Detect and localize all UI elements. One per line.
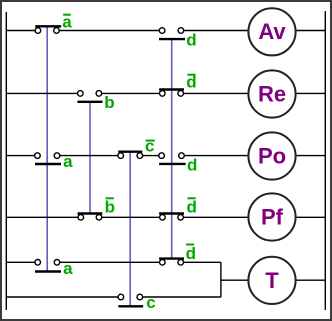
svg-text:a: a <box>63 152 73 171</box>
contact NO c rung5 : bar <box>118 305 143 307</box>
svg-text:Av: Av <box>258 19 286 44</box>
svg-text:a: a <box>62 12 72 31</box>
coil Po circle <box>248 132 295 179</box>
wire rung5 seg right <box>294 279 325 281</box>
contact NO a rung3 : bar <box>35 163 61 165</box>
linkage line d (blue) <box>171 39 173 258</box>
wire rung4 seg2 <box>99 216 162 218</box>
contact NC d-bar rung4 : bar <box>159 212 184 214</box>
coil Re circle <box>248 70 295 117</box>
wire rung5 join vertical <box>220 262 222 297</box>
linkage line a (blue) <box>46 27 48 271</box>
contact NC d-bar rung2 : bar <box>159 88 184 90</box>
right supply rail <box>324 11 326 310</box>
wire rung5 output <box>221 279 250 281</box>
wire rung2 seg4 <box>294 92 325 94</box>
wire rung2 seg3 <box>181 92 250 94</box>
wire rung1 seg1 <box>6 30 38 32</box>
svg-text:d: d <box>187 197 197 216</box>
wire rung1 seg2 <box>57 30 163 32</box>
wire rung3 seg4 <box>182 155 251 157</box>
wire rung3 seg1 <box>6 155 37 157</box>
contact NC b-bar rung4 : bar <box>78 212 103 214</box>
contact NO a rung3 : terminal 1 <box>35 153 41 159</box>
contact NC c-bar rung3 : terminal 2 <box>137 153 143 159</box>
contact NO c rung5 : terminal 1 <box>118 294 124 300</box>
wire rung2 seg2 <box>99 92 162 94</box>
wire rung4 seg3 <box>181 216 250 218</box>
coil Pf circle <box>248 193 295 240</box>
svg-text:Po: Po <box>258 143 286 168</box>
svg-text:b: b <box>104 93 114 112</box>
contact NO d rung3 : bar <box>159 163 186 165</box>
label d-bar rung5 <box>186 244 196 263</box>
wire rung5 bottom seg1 <box>6 296 121 298</box>
svg-text:c: c <box>146 293 155 312</box>
wire rung5 top seg2 <box>57 261 162 263</box>
wire rung2 seg1 <box>6 92 80 94</box>
linkage line b (blue) <box>89 102 91 214</box>
label d-bar rung4 <box>187 197 197 216</box>
svg-text:b: b <box>105 197 115 216</box>
wire rung5 top seg3 <box>181 261 221 263</box>
contact NO d rung1 : terminal 2 <box>178 28 184 34</box>
contact NO b rung2 : bar <box>77 101 102 103</box>
svg-text:T: T <box>265 268 279 293</box>
contact NC a-bar rung1 : terminal 1 <box>35 28 41 34</box>
svg-text:c: c <box>145 137 154 156</box>
contact NO d rung1 : terminal 1 <box>159 28 165 34</box>
contact NO a rung5 : terminal 2 <box>54 260 60 266</box>
svg-text:d: d <box>186 31 196 50</box>
coil T circle <box>248 257 295 304</box>
label d-bar rung2 <box>186 73 196 92</box>
contact NO a rung5 : bar <box>35 270 61 272</box>
label a-bar rung1 <box>62 12 72 31</box>
svg-text:d: d <box>186 73 196 92</box>
wire rung3 seg2 <box>57 155 121 157</box>
wire rung3 seg3 <box>140 155 162 157</box>
contact NC d-bar rung4 : terminal 2 <box>178 215 184 221</box>
contact NO c rung5 : terminal 2 <box>137 294 143 300</box>
contact NO d rung3 : terminal 2 <box>179 153 185 159</box>
wire rung1 seg3 <box>181 30 250 32</box>
contact NO d rung3 : terminal 1 <box>159 153 165 159</box>
wire rung5 bottom seg2 <box>140 296 221 298</box>
contact NC d-bar rung5 : bar <box>159 257 184 259</box>
wire rung1 seg4 <box>294 30 325 32</box>
label c-bar rung3 <box>145 137 155 156</box>
coil Av circle <box>248 8 295 55</box>
svg-text:d: d <box>186 244 196 263</box>
wire rung5 top seg1 <box>6 261 37 263</box>
contact NC d-bar rung5 : terminal 1 <box>160 260 166 266</box>
svg-text:Pf: Pf <box>261 204 284 229</box>
contact NO b rung2 : terminal 1 <box>78 91 84 97</box>
left supply rail <box>5 12 7 310</box>
contact NC a-bar rung1 : terminal 2 <box>54 28 60 34</box>
wire rung3 seg5 <box>294 155 325 157</box>
contact NC b-bar rung4 : terminal 1 <box>78 215 84 221</box>
contact NO b rung2 : terminal 2 <box>96 91 102 97</box>
wire rung4 seg1 <box>6 216 81 218</box>
contact NC d-bar rung2 : terminal 2 <box>178 91 184 97</box>
contact NC d-bar rung2 : terminal 1 <box>160 91 166 97</box>
svg-text:a: a <box>63 259 73 278</box>
wire rung4 seg4 <box>294 216 325 218</box>
contact NC b-bar rung4 : terminal 2 <box>96 215 102 221</box>
contact NO a rung5 : terminal 1 <box>35 260 41 266</box>
contact NC a-bar rung1 : bar <box>35 25 61 27</box>
linkage line c (blue) <box>129 152 131 306</box>
svg-text:d: d <box>187 156 197 175</box>
svg-text:Re: Re <box>258 81 286 106</box>
contact NC d-bar rung4 : terminal 1 <box>160 215 166 221</box>
label b-bar rung4 <box>105 197 115 216</box>
contact NO d rung1 : bar <box>159 38 185 40</box>
contact NC d-bar rung5 : terminal 2 <box>178 260 184 266</box>
contact NC c-bar rung3 : terminal 1 <box>118 153 124 159</box>
contact NO a rung3 : terminal 2 <box>54 153 60 159</box>
contact NC c-bar rung3 : bar <box>118 150 142 152</box>
